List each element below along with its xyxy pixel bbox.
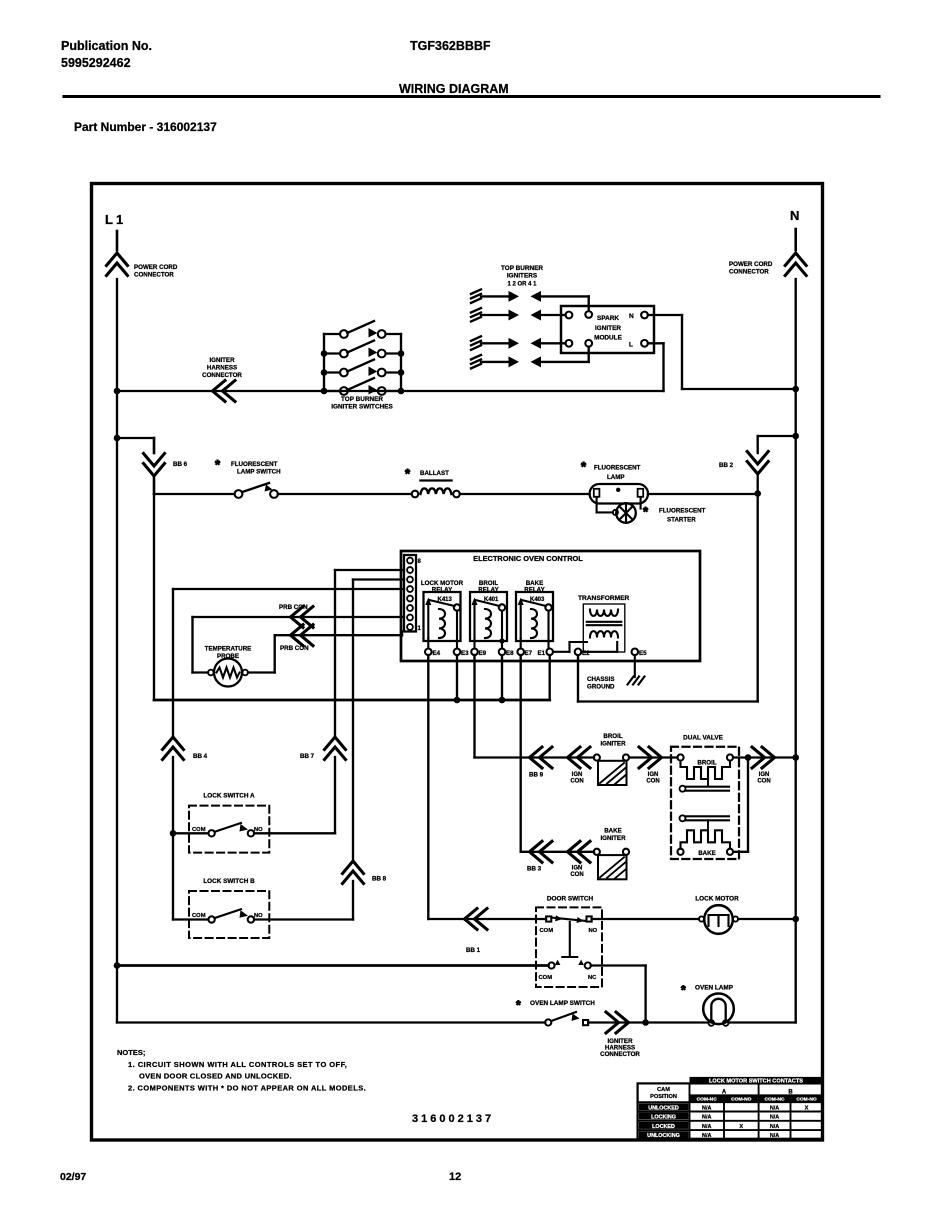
relay K413 coil: [439, 609, 445, 638]
svg-text:BB 7: BB 7: [300, 753, 315, 760]
wire lock motor to N: [738, 918, 796, 920]
power cord connector L1: [107, 253, 128, 266]
svg-text:TRANSFORMER: TRANSFORMER: [578, 595, 630, 602]
wire ballast to lamp: [460, 493, 590, 495]
chassis ground symbol: [628, 677, 634, 685]
svg-text:NO: NO: [254, 827, 263, 833]
junction oven lamp row: [642, 1019, 649, 1026]
svg-text:CON: CON: [570, 872, 583, 878]
svg-text:*: *: [516, 998, 521, 1012]
svg-text:*: *: [215, 457, 221, 472]
igniter switch row 4: [324, 390, 340, 392]
relay K403 armature: [520, 603, 522, 638]
svg-text:BROIL: BROIL: [697, 760, 716, 767]
door switch lower contacts: [548, 962, 554, 968]
svg-text:TOP BURNER: TOP BURNER: [341, 396, 383, 403]
svg-text:LOCK MOTOR: LOCK MOTOR: [695, 896, 739, 903]
wire igniter 3 to module: [541, 342, 566, 344]
svg-text:N/A: N/A: [702, 1124, 711, 1130]
svg-text:NOTES;: NOTES;: [117, 1048, 145, 1057]
top burner igniter 1: [471, 289, 481, 294]
svg-text:IGN: IGN: [572, 772, 583, 778]
svg-text:UNLOCKED: UNLOCKED: [648, 1105, 679, 1111]
svg-text:LOCK SWITCH B: LOCK SWITCH B: [203, 878, 255, 885]
svg-text:COM-NO: COM-NO: [731, 1097, 752, 1103]
svg-text:1 2 OR 4 1: 1 2 OR 4 1: [507, 282, 537, 288]
connector BB 4: [163, 737, 184, 750]
svg-text:TGF362BBBF: TGF362BBBF: [410, 39, 491, 53]
header rule: [64, 95, 879, 98]
EOC terminal E2: [575, 649, 582, 656]
relay K413 armature lead: [427, 638, 429, 649]
strip pin circle 1: [407, 624, 413, 630]
junction igniter switch rail: [321, 350, 328, 357]
junction igniter switch rail: [321, 369, 328, 376]
junction igniter switch rail: [398, 369, 405, 376]
svg-text:LAMP: LAMP: [607, 474, 625, 481]
relay K403 coil: [531, 609, 537, 638]
connector BB 1: [465, 909, 478, 930]
svg-text:1: 1: [418, 626, 422, 632]
wire probe right: [248, 671, 275, 673]
wire BB2 neutral down to E2: [757, 494, 759, 702]
junction fluorescent row to BB2: [754, 490, 761, 497]
wire module L to L1 row: [648, 342, 664, 344]
svg-text:CONNECTOR: CONNECTOR: [600, 1051, 640, 1058]
svg-text:N/A: N/A: [770, 1124, 779, 1130]
svg-text:COM-NC: COM-NC: [764, 1097, 785, 1103]
svg-text:12: 12: [449, 1171, 461, 1183]
wire BB6 to lamp switch: [153, 476, 156, 494]
svg-text:2. COMPONENTS WITH * DO NOT A: 2. COMPONENTS WITH * DO NOT APPEAR ON AL…: [128, 1084, 366, 1093]
wire N vertical main: [795, 279, 797, 1023]
svg-text:MODULE: MODULE: [594, 335, 622, 342]
EOC terminal E7: [517, 649, 524, 656]
svg-text:L: L: [629, 342, 633, 349]
junction igniter switch rail: [398, 388, 405, 395]
module pin top1: [566, 312, 573, 319]
connector IGN CON broil right: [649, 747, 662, 768]
svg-text:E9: E9: [479, 650, 487, 657]
igniter switch row 3: [324, 371, 340, 373]
lock switch B: [173, 918, 208, 920]
EOC connector strip P1: [404, 555, 416, 632]
wire valve broil to N: [733, 756, 796, 758]
valve terminal bake right: [727, 849, 733, 855]
svg-text:IGN: IGN: [648, 772, 659, 778]
svg-text:N: N: [790, 208, 799, 223]
svg-text:BB 3: BB 3: [527, 866, 542, 873]
svg-text:IGN: IGN: [572, 866, 583, 872]
junction bus E8: [499, 697, 506, 704]
svg-text:RELAY: RELAY: [524, 587, 545, 594]
svg-text:N/A: N/A: [702, 1105, 711, 1111]
svg-text:E2: E2: [582, 650, 590, 657]
wire lower bus: [117, 964, 548, 967]
svg-text:RELAY: RELAY: [478, 587, 499, 594]
svg-text:CONNECTOR: CONNECTOR: [729, 269, 769, 276]
svg-text:BB 4: BB 4: [193, 753, 208, 760]
relay K403 box: [516, 592, 553, 641]
svg-text:*: *: [581, 459, 587, 474]
svg-text:TEMPERATURE: TEMPERATURE: [205, 646, 252, 653]
svg-text:LOCKED: LOCKED: [652, 1124, 675, 1130]
svg-text:LAMP SWITCH: LAMP SWITCH: [237, 469, 281, 476]
wire L1 to BB6: [117, 437, 154, 439]
strip pin circle 3: [407, 605, 413, 611]
svg-text:A: A: [722, 1090, 727, 1096]
svg-text:IGNITER: IGNITER: [595, 325, 621, 332]
connector BB 8: [343, 861, 364, 874]
top burner igniter switches S1-S4: [323, 334, 325, 391]
svg-text:IGNITER: IGNITER: [209, 357, 235, 364]
junction lock motor at N: [792, 916, 799, 923]
svg-text:COM-NO: COM-NO: [796, 1097, 817, 1103]
igniter harness connector bottom: [616, 1012, 629, 1033]
svg-text:BB 9: BB 9: [529, 772, 544, 779]
lock switch A: [173, 832, 208, 834]
svg-text:IGNITER SWITCHES: IGNITER SWITCHES: [331, 404, 393, 411]
svg-text:BB 1: BB 1: [466, 947, 481, 954]
module pin bot1: [566, 340, 573, 347]
bake valve solenoid: [680, 815, 686, 821]
relay K401 box: [470, 592, 507, 641]
relay K413 armature: [427, 603, 429, 638]
svg-text:POSITION: POSITION: [650, 1094, 677, 1100]
wire L1 bus: [153, 494, 155, 700]
strip pin circle 6: [407, 577, 413, 583]
fluorescent starter: [596, 497, 598, 512]
wire EOC pin to BB8: [353, 578, 404, 580]
wire L1 to oven lamp switch: [117, 1021, 545, 1023]
svg-text:COM: COM: [539, 975, 553, 981]
module pin bot2: [585, 340, 592, 347]
svg-text:POWER CORD: POWER CORD: [134, 264, 178, 271]
junction igniter switch rail: [321, 388, 328, 395]
svg-text:IGN: IGN: [759, 772, 770, 778]
svg-text:N/A: N/A: [770, 1133, 779, 1139]
connector BB 3: [530, 841, 543, 862]
svg-text:*: *: [405, 466, 411, 481]
relay K413 box: [424, 592, 461, 641]
wire switch to ballast: [278, 493, 412, 495]
svg-text:UNLOCKING: UNLOCKING: [647, 1133, 680, 1139]
svg-text:N/A: N/A: [702, 1133, 711, 1139]
igniter switch row 2: [324, 352, 340, 354]
strip pin circle 2: [407, 615, 413, 621]
wire lock switch A NO to BB7: [254, 832, 335, 834]
door switch link: [569, 922, 571, 957]
wire L1 vertical upper: [116, 231, 119, 250]
svg-text:FLUORESCENT: FLUORESCENT: [594, 465, 641, 472]
wire E7 to bake igniter row: [520, 655, 522, 852]
svg-text:ELECTRONIC OVEN CONTROL: ELECTRONIC OVEN CONTROL: [473, 554, 583, 563]
svg-text:CON: CON: [570, 779, 583, 785]
svg-text:IGNITER: IGNITER: [600, 835, 626, 842]
svg-text:GROUND: GROUND: [587, 684, 615, 691]
relay K401 armature lead: [473, 638, 475, 649]
junction bus E3: [454, 697, 461, 704]
wire L1 top row: [117, 390, 664, 392]
svg-text:8: 8: [418, 559, 422, 565]
wire door switch NC down: [591, 964, 646, 966]
svg-text:STARTER: STARTER: [667, 517, 696, 524]
svg-text:HARNESS: HARNESS: [207, 365, 237, 372]
svg-text:OVEN LAMP SWITCH: OVEN LAMP SWITCH: [530, 1000, 595, 1007]
wire lamp switch to igniter harness connector: [588, 1021, 708, 1023]
svg-text:X: X: [805, 1105, 809, 1111]
igniter switch row 1: [324, 333, 340, 335]
svg-text:*: *: [643, 504, 649, 519]
wire N vertical upper: [794, 229, 797, 250]
svg-text:FLUORESCENT: FLUORESCENT: [659, 508, 706, 515]
strip pin circle 8: [407, 558, 413, 564]
connector IGN CON bake: [568, 841, 581, 862]
junction N at top row: [792, 386, 799, 393]
junction valve common: [745, 754, 752, 761]
svg-text:TOP BURNER: TOP BURNER: [501, 265, 543, 272]
igniter harness connector top: [213, 381, 226, 402]
connector BB 7: [325, 737, 346, 750]
wire igniter 2 to module: [541, 314, 566, 316]
svg-text:PRB CON: PRB CON: [280, 645, 309, 652]
connector IGN CON valve right: [762, 747, 775, 768]
relay K403 contact: [545, 604, 551, 610]
module pin top2: [585, 311, 592, 318]
svg-text:X: X: [739, 1124, 743, 1130]
svg-text:BAKE: BAKE: [698, 850, 716, 857]
svg-text:COM-NC: COM-NC: [697, 1097, 718, 1103]
relay K401 coil: [485, 609, 491, 638]
svg-text:316002137: 316002137: [412, 1113, 494, 1125]
valve terminal bake left: [677, 849, 683, 855]
svg-text:N/A: N/A: [702, 1115, 711, 1121]
svg-text:COM: COM: [540, 928, 554, 934]
junction L1 top row: [114, 388, 121, 395]
diagram border frame: [92, 184, 823, 1141]
svg-text:02/97: 02/97: [60, 1171, 86, 1183]
wire module N to neutral: [648, 314, 682, 316]
svg-text:DOOR SWITCH: DOOR SWITCH: [547, 896, 594, 903]
wire E3 drop: [456, 655, 458, 700]
wire EOC pin to BB7: [335, 569, 404, 571]
svg-text:COM: COM: [192, 913, 206, 919]
svg-text:Publication No.: Publication No.: [61, 39, 152, 53]
connector BB 2: [747, 462, 768, 475]
svg-text:N/A: N/A: [770, 1115, 779, 1121]
EOC terminal E1: [546, 649, 553, 656]
relay K403 armature lead: [520, 638, 522, 649]
svg-text:N: N: [629, 313, 634, 320]
wire probe left: [191, 617, 193, 673]
electronic oven control box: [401, 551, 700, 661]
svg-text:FLUORESCENT: FLUORESCENT: [231, 461, 278, 468]
svg-text:OVEN LAMP: OVEN LAMP: [695, 985, 734, 992]
probe connector lower PRB CON: [275, 634, 402, 636]
svg-text:WIRING DIAGRAM: WIRING DIAGRAM: [399, 82, 509, 96]
svg-text:COM: COM: [192, 827, 206, 833]
junction valve row at N: [792, 754, 799, 761]
junction lock switch A com: [170, 830, 177, 837]
junction igniter switch rail: [398, 350, 405, 357]
svg-text:BAKE: BAKE: [604, 828, 622, 835]
svg-text:B: B: [788, 1090, 793, 1096]
relay K401 armature: [473, 603, 475, 638]
wire L1 vertical main: [116, 279, 118, 1023]
top burner igniter 4: [471, 355, 481, 360]
wire E9 to broil igniter row: [473, 655, 475, 757]
svg-text:E3: E3: [461, 650, 469, 657]
svg-text:1. CIRCUIT SHOWN WITH ALL CON: 1. CIRCUIT SHOWN WITH ALL CONTROLS SET T…: [128, 1060, 347, 1069]
wire oven lamp to N: [729, 1021, 796, 1023]
svg-text:LOCK MOTOR SWITCH CONTACTS: LOCK MOTOR SWITCH CONTACTS: [709, 1078, 803, 1084]
svg-text:E7: E7: [525, 650, 533, 657]
wire E4 to door switch: [427, 655, 429, 919]
svg-text:CON: CON: [646, 779, 659, 785]
wire door switch NO to lock motor: [592, 918, 699, 920]
svg-text:5995292462: 5995292462: [61, 56, 131, 70]
wire lock switch B NO to BB8: [254, 918, 353, 920]
svg-text:POWER CORD: POWER CORD: [729, 261, 773, 268]
junction L1 fluorescent branch: [114, 435, 121, 442]
wire igniter 4 to module: [541, 361, 589, 363]
svg-text:LOCKING: LOCKING: [651, 1115, 676, 1121]
svg-text:E8: E8: [506, 650, 514, 657]
svg-text:BB 6: BB 6: [173, 461, 188, 468]
EOC terminal E8: [499, 649, 506, 656]
svg-text:OVEN DOOR CLOSED AND UNLOCKED.: OVEN DOOR CLOSED AND UNLOCKED.: [139, 1072, 292, 1081]
spark igniter module U1: [561, 306, 654, 353]
wire broil igniter to valve: [629, 756, 677, 758]
power cord connector N: [785, 253, 806, 266]
svg-text:BB 2: BB 2: [719, 462, 734, 469]
EOC terminal E3: [454, 649, 461, 656]
svg-text:RELAY: RELAY: [432, 587, 453, 594]
door switch upper contacts: [546, 916, 551, 921]
svg-text:NC: NC: [588, 975, 597, 981]
svg-text:BB 8: BB 8: [372, 876, 387, 883]
svg-text:BALLAST: BALLAST: [420, 470, 449, 477]
svg-text:E5: E5: [639, 650, 647, 657]
valve terminal broil right: [727, 754, 733, 760]
svg-text:IGNITERS: IGNITERS: [507, 273, 538, 280]
junction L1 lower bus: [114, 962, 121, 969]
wire valve common down: [747, 758, 749, 852]
svg-text:L1: L1: [105, 212, 126, 227]
relay K401 contact: [499, 604, 505, 610]
svg-text:CONNECTOR: CONNECTOR: [134, 272, 174, 279]
wire igniter 1 to module: [541, 295, 589, 297]
EOC terminal E5: [632, 649, 639, 656]
svg-text:CHASSIS: CHASSIS: [587, 676, 615, 683]
svg-text:LOCK SWITCH A: LOCK SWITCH A: [203, 793, 255, 800]
strip pin circle 7: [407, 567, 413, 573]
wire transformer to E1: [553, 651, 570, 653]
connector BB 9: [530, 747, 543, 768]
wire EOC pin to BB4: [173, 588, 404, 590]
svg-text:BROIL: BROIL: [603, 733, 622, 740]
svg-text:NO: NO: [589, 928, 598, 934]
connector IGN CON broil left: [568, 747, 581, 768]
svg-text:CONNECTOR: CONNECTOR: [202, 372, 242, 379]
svg-text:CON: CON: [757, 779, 770, 785]
EOC terminal E9: [471, 649, 478, 656]
table lock motor switch contacts: [638, 1077, 823, 1139]
wire transformer to E2: [581, 651, 617, 653]
svg-text:*: *: [681, 983, 686, 997]
svg-text:IGNITER: IGNITER: [600, 741, 626, 748]
svg-text:Part Number - 316002137: Part Number - 316002137: [74, 120, 217, 134]
wire lamp to N branch: [648, 493, 758, 495]
svg-text:E4: E4: [433, 650, 441, 657]
svg-text:CAM: CAM: [657, 1087, 670, 1093]
svg-text:NO: NO: [254, 913, 263, 919]
svg-text:SPARK: SPARK: [597, 315, 619, 322]
top burner igniter 3: [471, 336, 481, 341]
connector BB 6: [144, 464, 165, 477]
svg-text:E1: E1: [538, 650, 546, 657]
chassis ground lead: [634, 655, 636, 677]
relay K413 contact: [454, 604, 460, 610]
strip pin circle 5: [407, 586, 413, 592]
valve terminal broil left: [677, 754, 683, 760]
wire E8 drop: [501, 655, 503, 700]
svg-text:N/A: N/A: [770, 1105, 779, 1111]
svg-text:DUAL VALVE: DUAL VALVE: [683, 735, 724, 742]
top burner igniter 2: [471, 308, 481, 313]
wire E1 drop: [549, 655, 551, 700]
wire N to BB2: [792, 433, 799, 440]
junction broil relay lead: [499, 638, 504, 643]
EOC terminal E4: [425, 649, 432, 656]
strip pin circle 4: [407, 596, 413, 602]
